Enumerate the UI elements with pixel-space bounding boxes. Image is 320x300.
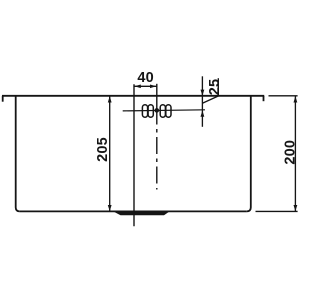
dimension line 205 (109, 96, 111, 212)
svg-text:40: 40 (137, 70, 154, 86)
dimension line 200 (294, 96, 296, 212)
faucet centerline dash-dot lower part (156, 121, 158, 190)
drain recess thick band (112, 211, 171, 216)
faucet ledge line (123, 110, 205, 111)
rim top line (2, 95, 264, 97)
arrowhead 205 bottom (108, 205, 112, 211)
basin right wall (247, 96, 251, 211)
leader vertical beside 25 text (217, 78, 219, 96)
rim right edge stub (263, 96, 265, 101)
faucet center dot (155, 108, 160, 113)
svg-text:25: 25 (207, 79, 223, 96)
basin bottom line (20, 210, 247, 212)
svg-text:205: 205 (95, 137, 111, 162)
arrowhead 40 right (150, 85, 156, 89)
extension line top for 200 (269, 95, 298, 97)
arrowhead 205 top (108, 96, 112, 102)
faucet centerline solid upper part / 40 right extension (156, 84, 158, 121)
dimension line 40 (134, 85, 157, 87)
extension line bottom for 200 (256, 210, 298, 212)
arrowhead 25 down (above rim) (201, 90, 205, 96)
dimension line 25 (201, 76, 203, 127)
basin left wall (16, 96, 20, 211)
arrowhead 200 top (294, 96, 298, 102)
faucet fitting ring 4 (166, 105, 171, 117)
arrowhead 200 bottom (294, 205, 298, 211)
svg-text:200: 200 (282, 140, 298, 165)
faucet fitting ring 2 (148, 105, 153, 117)
faucet fitting ring 3 (160, 105, 165, 117)
arrowhead 25 up (below ledge line) (201, 110, 205, 116)
rim left edge stub (2, 96, 4, 102)
faucet fitting ring 1 (142, 105, 147, 117)
leader diagonal for 25 (202, 96, 218, 103)
drain centerline / 40 left extension (133, 84, 135, 226)
arrowhead 40 left (134, 85, 140, 89)
